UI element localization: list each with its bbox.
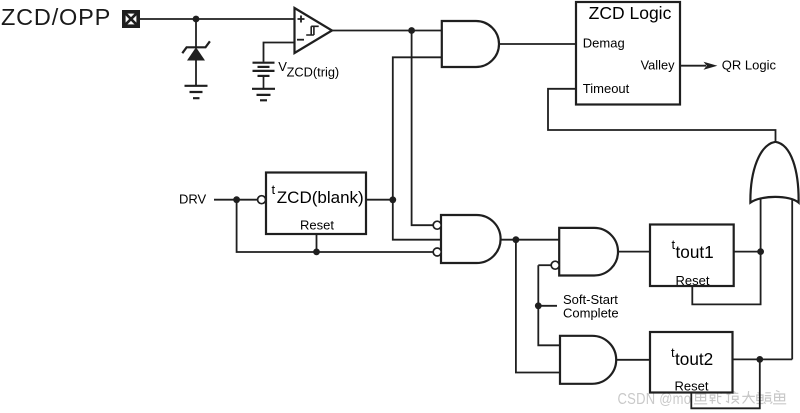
AND gate t_tout1 xyxy=(559,228,618,276)
svg-text:t: t xyxy=(272,182,276,197)
bubble bottom input xyxy=(433,248,441,256)
wire comparator output to AND gate xyxy=(332,30,442,32)
wire comparator inverting input to battery xyxy=(264,43,295,62)
AND gate bottom (t_tout2) xyxy=(560,336,616,384)
svg-text:tout1: tout1 xyxy=(676,242,714,262)
wire zener to ground xyxy=(195,61,197,86)
wire soft-start vertical down to bottom AND xyxy=(538,265,560,345)
wire pin to comparator + input xyxy=(140,18,295,20)
node t_tout1 output junction xyxy=(757,248,764,255)
node soft-start junction xyxy=(535,302,542,309)
wire AND to ZCD Logic Demag xyxy=(499,43,576,45)
wire OR left input from t_tout1 output xyxy=(760,199,762,252)
svg-text:Valley: Valley xyxy=(641,57,676,72)
bubble t_tout1 AND lower input xyxy=(551,261,559,269)
wire t_tout1 output to OR left input xyxy=(734,251,761,253)
wire junction down to bottom AND input xyxy=(516,240,560,373)
input bubble t_ZCD(blank) xyxy=(258,196,266,204)
svg-text:Reset: Reset xyxy=(676,273,710,288)
node junction at zener tap xyxy=(193,16,200,23)
ground (zener) xyxy=(185,86,208,98)
svg-text:ZCD Logic: ZCD Logic xyxy=(589,3,672,23)
wire middle AND output to t_tout1 AND xyxy=(501,239,559,241)
t_ZCD(blank) box xyxy=(266,173,366,235)
svg-text:Demag: Demag xyxy=(583,36,625,51)
wire bottom AND output to t_tout2 box xyxy=(616,359,650,361)
watermark CSDN xyxy=(618,391,787,409)
node middle AND output junction xyxy=(513,236,520,243)
wire DRV down and right to middle AND bubble (reset line) xyxy=(237,200,434,252)
wire t_ZCD(blank) output up to top AND input xyxy=(393,57,442,200)
node reset junction xyxy=(313,249,320,256)
svg-text:Reset: Reset xyxy=(675,379,709,394)
node DRV junction xyxy=(233,196,240,203)
t_tout1 box xyxy=(650,225,734,289)
wire t_tout1 AND output to box xyxy=(618,251,650,253)
AND gate top (demag) xyxy=(442,21,499,67)
OR gate (pointing up) xyxy=(750,142,798,203)
ground (battery) xyxy=(252,89,275,101)
wire DRV to t_ZCD(blank) bubble xyxy=(214,199,258,201)
bubble top input xyxy=(433,221,441,229)
wire Valley output arrow xyxy=(680,65,706,67)
node t_tout2 output junction xyxy=(756,356,763,363)
svg-text:Complete: Complete xyxy=(563,306,619,321)
op-amp comparator U1 xyxy=(295,8,333,53)
svg-text:tout2: tout2 xyxy=(675,349,713,369)
wire t_ZCD(blank) output down to middle AND input xyxy=(393,200,441,240)
wire t_tout2 output to OR right input xyxy=(733,358,793,360)
wire junction down to zener xyxy=(195,19,197,47)
node comparator output junction xyxy=(408,27,415,34)
svg-text:ZCD(trig): ZCD(trig) xyxy=(287,65,340,80)
svg-text:ZCD(blank): ZCD(blank) xyxy=(277,188,364,207)
node t_ZCD(blank) output junction xyxy=(389,196,396,203)
wire reset stub up into t_ZCD(blank) xyxy=(316,234,318,252)
wire t_ZCD(blank) output xyxy=(366,199,393,201)
zener diode xyxy=(182,41,210,60)
svg-text:QR Logic: QR Logic xyxy=(722,57,777,72)
svg-text:ZCD/OPP: ZCD/OPP xyxy=(1,4,111,30)
ZCD Logic box xyxy=(576,2,680,105)
battery V_ZCD(trig) xyxy=(253,63,275,89)
svg-text:DRV: DRV xyxy=(179,192,207,207)
svg-text:Timeout: Timeout xyxy=(583,81,630,96)
pin symbol ZCD/OPP xyxy=(122,10,140,28)
wire Timeout input from OR gate output xyxy=(548,89,776,142)
wire soft-start stub xyxy=(538,305,557,307)
AND gate middle (3-input with bubbles) xyxy=(441,215,501,263)
wire t_tout2 reset loop xyxy=(691,359,760,408)
t_tout2 box xyxy=(650,332,733,394)
wire bubble to soft-start vertical xyxy=(538,264,551,266)
svg-text:Reset: Reset xyxy=(300,218,334,233)
wire junction down to middle AND bubble input xyxy=(412,31,434,226)
wire t_tout1 reset loop xyxy=(692,252,760,305)
wire OR right input from t_tout2 output xyxy=(791,200,793,359)
